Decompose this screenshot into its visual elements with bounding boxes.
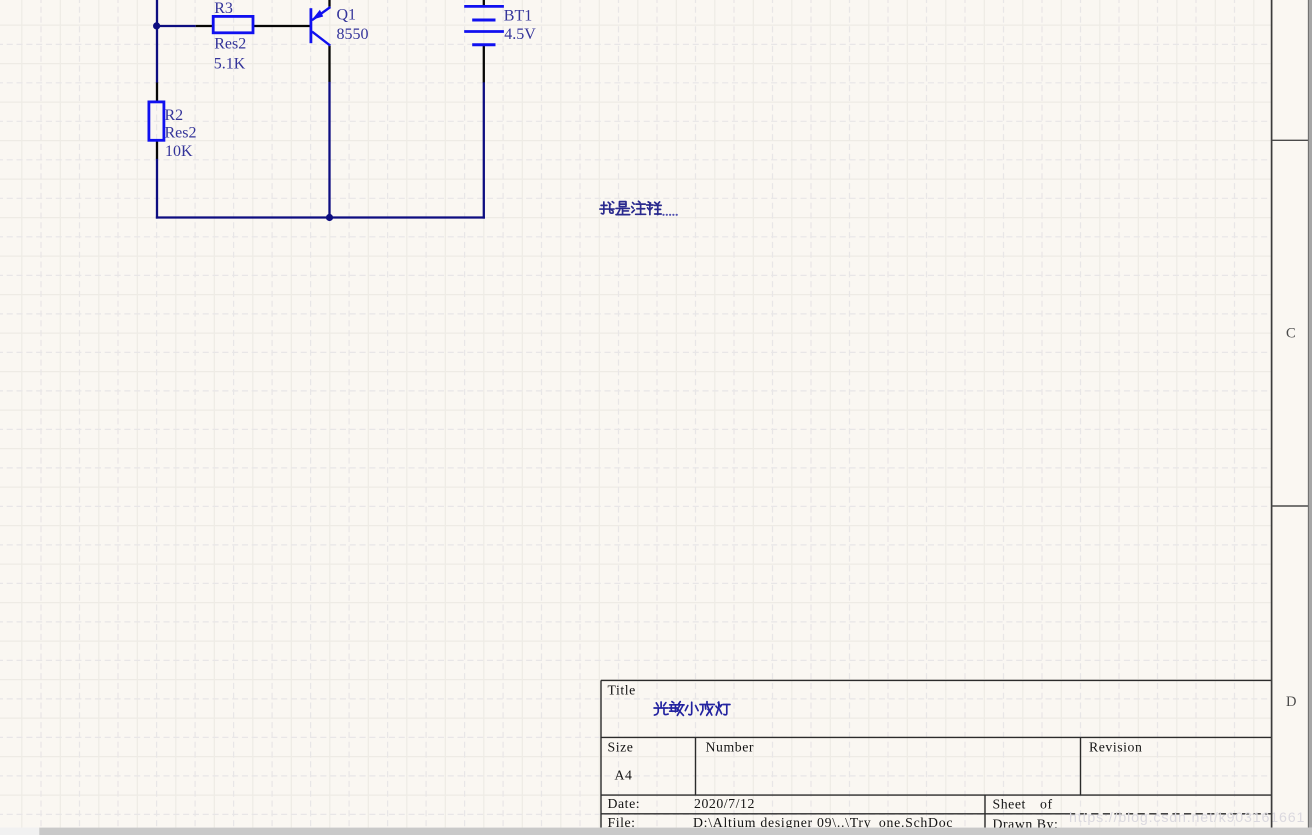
svg-text:Sheet: Sheet xyxy=(993,797,1026,812)
svg-text:Number: Number xyxy=(706,740,755,755)
title block divider Date/Sheet xyxy=(984,795,986,828)
svg-text:D: D xyxy=(1286,694,1296,710)
svg-text:of: of xyxy=(1040,797,1053,812)
svg-text:https://blog.csdn.net/k9031616: https://blog.csdn.net/k903161661 xyxy=(1069,810,1305,826)
svg-text:A4: A4 xyxy=(615,768,633,783)
svg-text:5.1K: 5.1K xyxy=(214,56,246,73)
pin R3 left xyxy=(196,25,214,27)
pin BT1 plus xyxy=(483,0,485,6)
transistor Q1 collector stroke xyxy=(312,32,330,46)
wire R2 bottom to bottom rail xyxy=(156,159,158,219)
junction node bottom rail xyxy=(326,214,333,221)
svg-text:10K: 10K xyxy=(165,143,193,160)
battery BT1 plate long bottom xyxy=(464,30,504,33)
svg-text:BT1: BT1 xyxy=(504,7,532,24)
svg-text:8550: 8550 xyxy=(337,26,369,43)
wire bottom rail xyxy=(156,216,485,218)
svg-text:Res2: Res2 xyxy=(165,125,197,142)
pin R2 bottom xyxy=(156,140,158,159)
transistor Q1 emitter arrow xyxy=(312,10,323,20)
svg-text:Q1: Q1 xyxy=(337,7,357,24)
title block top edge xyxy=(601,679,1272,681)
transistor Q1 base bar xyxy=(309,8,312,43)
title block divider Size/Number xyxy=(695,737,697,795)
wire left vertical (net to R2 top) xyxy=(156,0,158,83)
battery BT1 plate long top xyxy=(464,5,504,8)
title block divider Number/Revision xyxy=(1080,737,1082,795)
svg-text:R2: R2 xyxy=(165,107,184,124)
title block line Size/Date xyxy=(601,794,1272,796)
title block line Date/File xyxy=(601,813,1068,815)
resistor R2 body xyxy=(149,102,164,140)
svg-text:Size: Size xyxy=(608,740,634,755)
sheet title 光敏小夜灯 xyxy=(654,702,668,715)
junction node at R3/R2 xyxy=(153,22,160,29)
wire junction to R3 xyxy=(157,25,196,27)
horizontal scrollbar thumb xyxy=(39,828,1312,835)
svg-text:Title: Title xyxy=(608,683,636,698)
battery BT1 plate short bottom xyxy=(472,43,495,46)
pin R3 right / Q1 base xyxy=(253,25,310,27)
pin Q1 emitter xyxy=(328,0,330,7)
svg-text:Res2: Res2 xyxy=(214,35,246,52)
sheet margin strip xyxy=(1272,0,1312,828)
svg-text:Revision: Revision xyxy=(1089,740,1142,755)
resistor R3 body xyxy=(213,16,253,32)
wire battery to bottom rail xyxy=(483,82,485,219)
svg-text:4.5V: 4.5V xyxy=(504,26,536,43)
pin R2 top xyxy=(156,83,158,103)
zone divider C/D xyxy=(1272,505,1309,507)
title block line Title/Size xyxy=(601,736,1272,738)
battery BT1 plate short xyxy=(472,19,495,22)
pin Q1 collector xyxy=(328,46,330,82)
svg-text:Date:: Date: xyxy=(608,796,641,811)
window right edge strip xyxy=(1308,0,1312,835)
svg-text:R3: R3 xyxy=(214,0,233,17)
svg-text:C: C xyxy=(1286,326,1296,342)
svg-text:2020/7/12: 2020/7/12 xyxy=(694,796,755,811)
sheet border line xyxy=(1271,0,1273,828)
wire collector to bottom rail xyxy=(328,82,330,218)
title block left edge xyxy=(600,680,602,827)
annotation text 我是注释..... xyxy=(600,201,678,216)
transistor Q1 emitter stroke xyxy=(312,7,330,20)
title block line Date/File dashed under watermark xyxy=(1068,813,1272,815)
horizontal scrollbar track xyxy=(0,828,1312,835)
zone divider C top xyxy=(1272,139,1309,141)
pin BT1 minus xyxy=(483,45,485,83)
